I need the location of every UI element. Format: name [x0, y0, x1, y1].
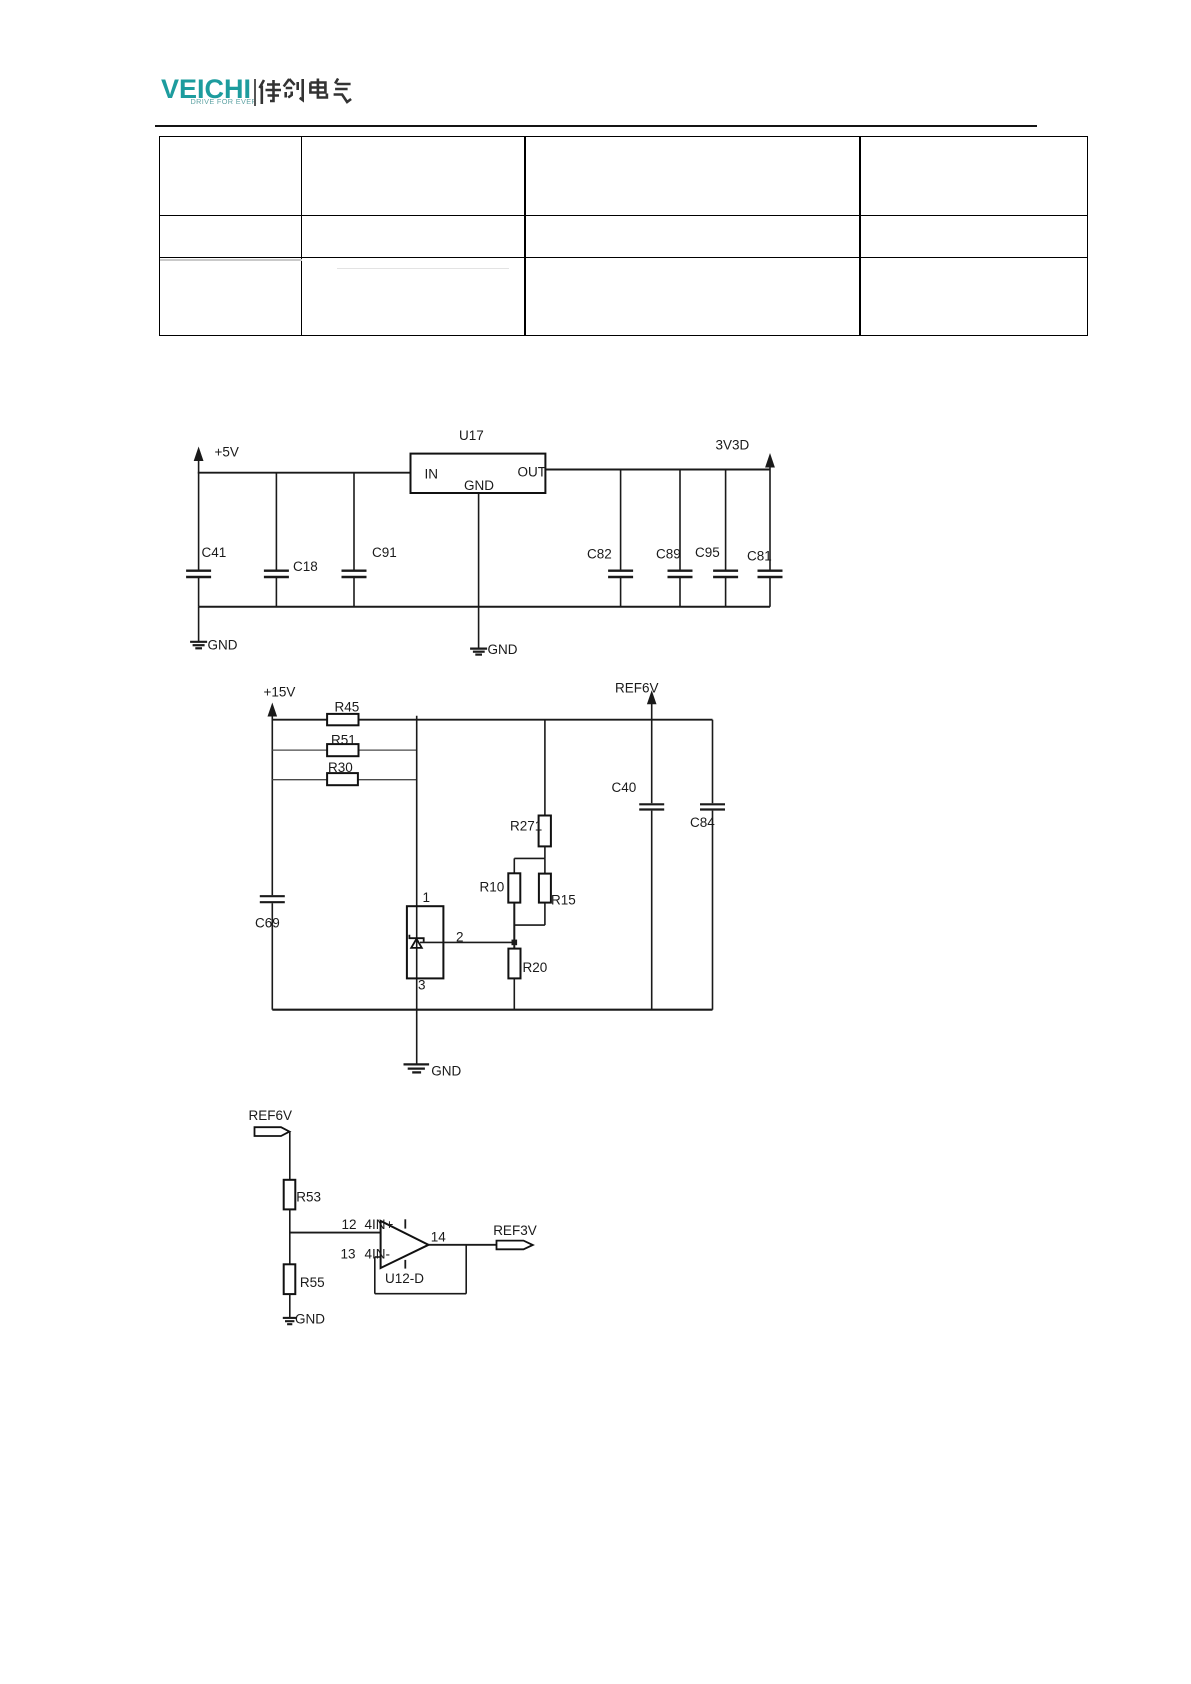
svg-text:+5V: +5V: [215, 445, 239, 460]
svg-text:C40: C40: [612, 780, 637, 795]
svg-text:C82: C82: [587, 547, 612, 562]
svg-text:GND: GND: [464, 478, 494, 493]
svg-text:R30: R30: [328, 760, 353, 775]
svg-text:C18: C18: [293, 559, 318, 574]
svg-text:R45: R45: [335, 700, 360, 715]
svg-text:C95: C95: [695, 545, 720, 560]
svg-text:IN: IN: [425, 467, 439, 482]
svg-text:3V3D: 3V3D: [716, 438, 750, 453]
svg-text:GND: GND: [431, 1064, 461, 1079]
svg-text:REF6V: REF6V: [615, 680, 659, 695]
svg-text:C89: C89: [656, 547, 681, 562]
svg-text:12: 12: [342, 1217, 357, 1232]
svg-text:4IN+: 4IN+: [365, 1217, 394, 1232]
svg-text:GND: GND: [488, 642, 518, 657]
svg-text:C81: C81: [747, 549, 772, 564]
svg-text:R51: R51: [331, 732, 356, 747]
svg-text:OUT: OUT: [518, 465, 547, 480]
svg-text:R55: R55: [300, 1275, 325, 1290]
svg-text:+15V: +15V: [264, 684, 296, 699]
svg-text:1: 1: [423, 890, 431, 905]
svg-text:R10: R10: [480, 879, 505, 894]
svg-text:REF3V: REF3V: [493, 1223, 537, 1238]
svg-text:C84: C84: [690, 815, 715, 830]
svg-text:3: 3: [418, 978, 426, 993]
svg-text:C91: C91: [372, 545, 397, 560]
svg-text:R53: R53: [296, 1189, 321, 1204]
svg-text:14: 14: [431, 1230, 447, 1245]
svg-text:U12-D: U12-D: [385, 1271, 424, 1286]
svg-text:4IN-: 4IN-: [365, 1247, 391, 1262]
svg-text:GND: GND: [208, 638, 238, 653]
svg-text:2: 2: [456, 930, 464, 945]
svg-text:REF6V: REF6V: [249, 1108, 293, 1123]
svg-text:U17: U17: [459, 428, 484, 443]
svg-text:R15: R15: [551, 892, 576, 907]
svg-text:GND: GND: [295, 1312, 325, 1327]
svg-text:R20: R20: [523, 960, 548, 975]
svg-text:C69: C69: [255, 916, 280, 931]
svg-text:13: 13: [341, 1247, 356, 1262]
svg-text:C41: C41: [202, 545, 227, 560]
svg-text:R271: R271: [510, 818, 542, 833]
